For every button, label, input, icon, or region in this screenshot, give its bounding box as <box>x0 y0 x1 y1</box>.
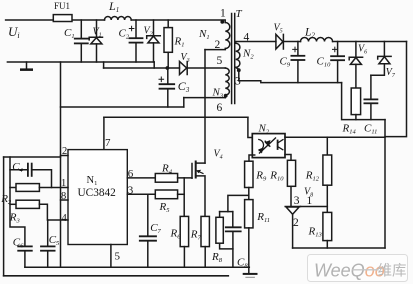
wire: C4 loop top horizontal <box>4 156 61 158</box>
zener V1 <box>89 20 102 62</box>
wire: outer bottom rail <box>4 275 229 277</box>
wire: R9 bottom elbow to R8/C8 pair <box>228 188 249 212</box>
resistor R3 <box>10 200 68 220</box>
wire: jog from bottom rail down at x103.6 <box>103 62 105 68</box>
wire: y107 rail from pin2 vertical to jog <box>61 106 184 108</box>
pin 3 stub <box>127 193 155 195</box>
pin 5 stub <box>110 245 112 268</box>
op-amp U1 IC UC3842 N1 box <box>68 150 127 245</box>
capacitor C9 <box>291 42 304 83</box>
resistor R5 <box>155 190 177 199</box>
node: polarity dot pin1 <box>220 20 224 24</box>
inductor L1 <box>105 16 132 20</box>
svg-text:3: 3 <box>294 195 300 207</box>
winding N2 <box>236 43 240 67</box>
svg-text:T: T <box>236 8 243 20</box>
node: polarity dot N3 <box>224 94 228 98</box>
optocoupler N2 box <box>252 134 285 158</box>
wire: feedback bottom rail <box>293 247 385 249</box>
wire: N2 bottom down <box>236 67 239 80</box>
transformer T core <box>232 14 235 104</box>
watermark strikethrough <box>353 269 378 271</box>
wire: feedback vertical x385 <box>384 120 386 248</box>
svg-text:5: 5 <box>115 251 121 263</box>
zener V6 <box>349 42 362 89</box>
capacitor C2 <box>129 20 142 62</box>
wire: V3 cathode to N3 pin5 <box>187 67 225 69</box>
svg-text:8: 8 <box>61 191 66 202</box>
wire: drain vertical <box>204 50 206 164</box>
zener V8 TL431 <box>285 207 300 249</box>
node: junction dot R1/C3 <box>166 66 170 70</box>
wire: output right edge down <box>385 42 407 137</box>
wire: left outer vertical <box>3 157 5 276</box>
wire: R8/C8 top bar <box>220 211 233 213</box>
capacitor C11 <box>364 75 377 119</box>
winding N1 <box>225 23 230 49</box>
watermark box <box>308 255 408 282</box>
diode V3 <box>180 62 188 75</box>
wire: jog up to pin6 line <box>183 98 185 107</box>
wire: input top rail left <box>6 19 105 21</box>
svg-text:4: 4 <box>62 213 68 224</box>
resistor R10 <box>287 160 295 206</box>
wire: opto bottom-right pin to R10 <box>285 155 291 161</box>
wire: long vertical x60.5 from input rail to ground rail <box>60 62 62 267</box>
wire: secondary ground rail <box>239 81 342 83</box>
svg-text:FU1: FU1 <box>54 1 70 11</box>
resistor R12 <box>323 137 332 212</box>
svg-text:1: 1 <box>220 8 226 20</box>
wire: gate line <box>178 177 192 179</box>
zener V7 <box>371 42 391 76</box>
resistor R4 <box>155 174 177 183</box>
resistor R11 <box>245 200 253 274</box>
svg-text:UC3842: UC3842 <box>78 187 117 199</box>
svg-text:5: 5 <box>217 55 223 67</box>
svg-text:2: 2 <box>293 217 299 229</box>
resistor R13 <box>323 212 332 248</box>
wire: inner vertical x10 with elbow to C6 <box>10 157 25 246</box>
wire: vcc rail down into optocoupler <box>248 117 252 137</box>
capacitor C10 <box>331 42 344 83</box>
resistor R8 <box>216 212 233 249</box>
wire: vcc rail y117.3 from pin7 to optocoupler <box>104 116 248 118</box>
wire: pin6 line to N3 bottom <box>184 97 226 99</box>
fuse FU1 <box>53 15 72 22</box>
capacitor C7 <box>140 194 156 267</box>
resistor R7 <box>201 216 209 267</box>
diode V5 <box>276 34 284 49</box>
pin 8 stub <box>61 199 69 201</box>
resistor R6 <box>180 216 188 267</box>
ground <box>20 62 33 71</box>
resistor R9 <box>245 161 253 187</box>
wire: vertical R4-R5-R6 <box>183 178 185 217</box>
capacitor C8 (parallel with R8) <box>226 212 241 268</box>
inductor L2 <box>301 37 333 41</box>
capacitor C6 <box>18 246 32 267</box>
ground (secondary, below R11) <box>244 274 257 277</box>
wire: N1 bottom to drain vertical <box>205 49 225 50</box>
wire: y68 line to V3 <box>104 67 180 69</box>
node: polarity dot N2 <box>237 68 241 72</box>
zener V2 <box>147 20 161 62</box>
svg-text:维库: 维库 <box>378 263 407 280</box>
resistor R2 <box>10 184 68 192</box>
svg-text:7: 7 <box>105 137 111 149</box>
resistor R1 <box>164 20 172 68</box>
svg-text:6: 6 <box>217 102 223 114</box>
winding N3 <box>225 68 229 98</box>
wire: top rail from L1 to transformer pin 1 <box>131 20 225 23</box>
wire: opto bottom-left pin to R9 <box>249 155 255 161</box>
wire: IC ground rail <box>25 266 249 268</box>
wire: V8 ref line to divider <box>301 206 328 208</box>
wire: jog from bottom rail down at V2 <box>153 62 155 68</box>
optocoupler LED and phototransistor <box>258 138 283 154</box>
capacitor C1 <box>75 20 88 62</box>
capacitor C3 <box>159 68 174 107</box>
capacitor C5 <box>41 220 55 267</box>
svg-text:3: 3 <box>235 76 241 88</box>
wire: N2 top to output rail <box>236 42 276 44</box>
transistor V4 MOSFET <box>192 162 205 217</box>
wire: opto right pin to feedback node <box>285 136 385 138</box>
wire: R5 to junction vertical <box>178 193 185 195</box>
wire: R14/C11 bottom rail <box>342 83 385 120</box>
wire: output rail V5 to right edge <box>283 41 406 43</box>
capacitor C4 <box>10 164 52 188</box>
svg-text:3: 3 <box>128 184 134 196</box>
svg-text:6: 6 <box>128 168 134 180</box>
svg-text:2: 2 <box>62 146 67 157</box>
pin 2 stub <box>61 155 69 157</box>
svg-text:1: 1 <box>307 195 313 207</box>
wire: pin7 vertical <box>103 117 105 149</box>
wire: input bottom rail <box>7 61 154 63</box>
resistor R14 <box>351 88 360 120</box>
pin 6 stub <box>127 177 155 179</box>
